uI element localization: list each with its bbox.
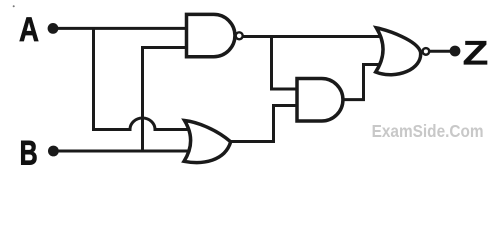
svg-text:Z: Z <box>463 34 489 72</box>
node B (input terminal dot) <box>48 146 59 157</box>
speck artifact top-left <box>13 5 15 7</box>
NAND gate U1 body <box>187 14 235 56</box>
node Z (output terminal dot) <box>450 46 461 57</box>
wire: NAND bottom input, down to B net <box>143 48 191 152</box>
wire: node B to OR bottom input <box>53 150 190 153</box>
svg-text:ExamSide.Com: ExamSide.Com <box>372 121 484 141</box>
wire: AND output up to NOR bottom input <box>342 65 384 100</box>
svg-text:A: A <box>19 11 39 49</box>
AND gate U3 body <box>297 79 343 122</box>
wire: node A to NAND top input <box>53 27 190 30</box>
wire: NAND output to NOR top input <box>243 35 384 38</box>
NAND gate U1 output bubble <box>236 32 243 39</box>
wire: OR output up to AND bottom input <box>230 106 299 142</box>
OR gate U2 body <box>184 121 231 163</box>
wire: A branch vertical drop <box>92 28 95 129</box>
NOR gate U4 body <box>376 28 421 75</box>
wire: NAND output branch down to AND top input <box>272 37 300 90</box>
wire: NOR output to node Z <box>430 50 456 53</box>
NOR gate U4 output bubble <box>423 48 430 55</box>
node A (input terminal dot) <box>48 23 59 34</box>
svg-text:B: B <box>20 134 38 172</box>
wire: A branch to OR top input with crossover hop <box>92 118 190 129</box>
